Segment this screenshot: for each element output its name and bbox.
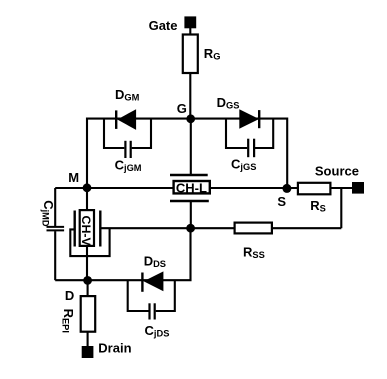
svg-text:S: S — [277, 194, 286, 209]
svg-text:Gate: Gate — [149, 18, 178, 33]
svg-text:Source: Source — [315, 164, 359, 179]
svg-text:M: M — [68, 170, 79, 185]
svg-text:Drain: Drain — [98, 341, 131, 356]
svg-text:D: D — [65, 288, 74, 303]
svg-text:CH-L: CH-L — [176, 180, 207, 195]
svg-text:CH-V: CH-V — [79, 216, 93, 247]
svg-text:G: G — [177, 101, 187, 116]
